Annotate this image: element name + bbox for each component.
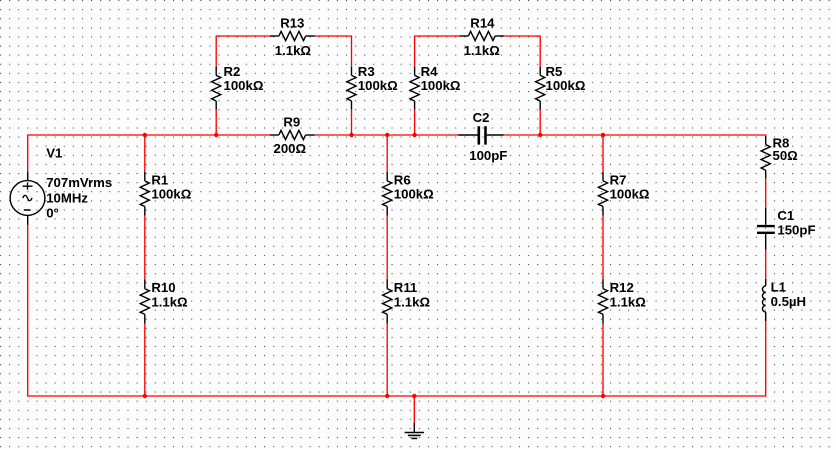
svg-text:1.1kΩ: 1.1kΩ: [464, 43, 501, 58]
svg-text:C2: C2: [473, 110, 490, 125]
svg-text:1.1kΩ: 1.1kΩ: [610, 295, 647, 310]
wire: C1 to L1 segment: [765, 250, 767, 280]
svg-text:100pF: 100pF: [469, 148, 507, 163]
junction at R10 bottom: [143, 394, 147, 398]
svg-text:1.1kΩ: 1.1kΩ: [151, 295, 188, 310]
svg-text:1.1kΩ: 1.1kΩ: [275, 43, 312, 58]
svg-text:200Ω: 200Ω: [274, 141, 307, 156]
resistor R11 1.1k: [383, 280, 431, 324]
svg-text:R1: R1: [151, 172, 168, 187]
resistor R10 1.1k: [140, 280, 188, 324]
svg-text:100kΩ: 100kΩ: [421, 78, 461, 93]
svg-text:150pF: 150pF: [777, 222, 815, 237]
junction at R1 top: [143, 133, 147, 137]
wire: V1 top to main bus left segment: [28, 135, 270, 172]
svg-text:C1: C1: [777, 208, 794, 223]
capacitor C2 100pF: [458, 110, 507, 163]
svg-text:R9: R9: [283, 114, 300, 129]
junction at R12 bottom: [601, 394, 605, 398]
svg-text:L1: L1: [771, 280, 786, 295]
inductor L1 0.5uH: [762, 279, 806, 321]
wire: R7 to R12 middle segment: [602, 216, 604, 280]
svg-text:100kΩ: 100kΩ: [394, 186, 434, 201]
resistor R7 100k: [598, 172, 650, 216]
wire: R1 to R10 middle segment: [144, 216, 146, 280]
resistor R2 100k: [212, 64, 264, 110]
wire: R14 right to R5 top corner: [504, 36, 540, 67]
svg-text:0.5µH: 0.5µH: [771, 294, 806, 309]
junction at R5 bottom: [538, 133, 542, 137]
svg-text:100kΩ: 100kΩ: [151, 186, 191, 201]
svg-text:V1: V1: [46, 146, 62, 161]
svg-text:R14: R14: [470, 15, 495, 30]
svg-text:1.1kΩ: 1.1kΩ: [394, 295, 431, 310]
junction at R3 bottom: [349, 133, 353, 137]
junction at R4 bottom: [412, 133, 416, 137]
svg-text:R7: R7: [610, 172, 627, 187]
wire: main bus right segment to R8 corner: [504, 135, 766, 138]
resistor R13 1.1k: [270, 15, 315, 58]
junction at R6 top: [385, 133, 389, 137]
svg-text:100kΩ: 100kΩ: [546, 78, 586, 93]
svg-text:R11: R11: [394, 280, 417, 295]
svg-text:R2: R2: [224, 64, 241, 79]
wire: main bus middle segment: [315, 134, 459, 136]
wire: R10 bottom: [144, 324, 146, 397]
wire: R2 bottom: [215, 110, 217, 135]
svg-text:0°: 0°: [46, 205, 59, 220]
wire: R6 to R11 middle segment: [386, 216, 388, 280]
svg-text:R6: R6: [394, 172, 411, 187]
resistor R1 100k: [140, 172, 192, 216]
resistor R14 1.1k: [459, 15, 504, 58]
wire: R4 top corner to R14 left: [415, 36, 460, 67]
svg-text:10MHz: 10MHz: [46, 191, 88, 206]
resistor R5 100k: [536, 64, 586, 110]
svg-text:R12: R12: [610, 280, 634, 295]
resistor R6 100k: [383, 172, 435, 216]
junction at R7 top: [601, 133, 605, 137]
resistor R8 50: [761, 136, 798, 179]
wire: R2 top corner to R13 left: [216, 36, 270, 67]
resistor R4 100k: [410, 64, 461, 110]
capacitor C1 150pF: [757, 208, 816, 250]
svg-text:R10: R10: [151, 280, 175, 295]
wire: R8 to C1 segment: [765, 178, 767, 208]
wire: V1 bottom, bottom bus, right riser bottom: [28, 225, 766, 396]
wire: R11 bottom: [386, 324, 388, 397]
svg-text:100kΩ: 100kΩ: [224, 78, 264, 93]
resistor R9 200: [270, 114, 315, 156]
wire: R13 right to R3 top corner: [315, 36, 352, 67]
svg-text:R5: R5: [546, 64, 563, 79]
svg-text:R13: R13: [280, 15, 304, 30]
svg-text:707mVrms: 707mVrms: [46, 175, 112, 190]
junction at R11 bottom: [385, 394, 389, 398]
wire: R5 bottom: [539, 110, 541, 135]
svg-text:R4: R4: [421, 64, 439, 79]
wire: R12 bottom: [602, 324, 604, 397]
svg-text:100kΩ: 100kΩ: [610, 186, 650, 201]
junction at R2 bottom: [214, 133, 218, 137]
wire: ground stub: [413, 396, 415, 423]
wire: R4 bottom: [414, 110, 416, 135]
resistor R3 100k: [347, 64, 398, 110]
svg-text:R3: R3: [358, 64, 375, 79]
wire: R6 branch top: [386, 135, 388, 172]
svg-text:50Ω: 50Ω: [773, 148, 799, 163]
wire: R1 branch top: [144, 135, 146, 172]
resistor R12 1.1k: [598, 280, 646, 324]
wire: R7 branch top: [602, 135, 604, 172]
voltage source V1: [10, 146, 112, 225]
ground: [405, 423, 424, 439]
svg-text:100kΩ: 100kΩ: [358, 78, 398, 93]
wire: R3 bottom: [351, 110, 353, 135]
junction at ground: [412, 394, 416, 398]
